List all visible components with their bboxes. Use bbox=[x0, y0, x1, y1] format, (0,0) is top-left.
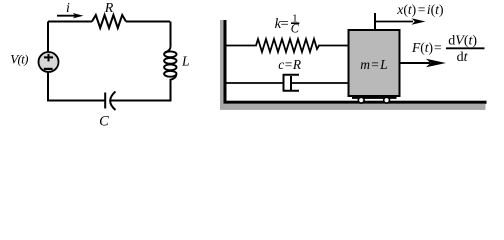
svg-text:L: L bbox=[181, 54, 190, 69]
wheel right bbox=[384, 97, 390, 103]
svg-text:dV(t): dV(t) bbox=[448, 33, 477, 48]
label i bbox=[66, 1, 70, 16]
svg-text:k=: k= bbox=[275, 16, 289, 32]
svg-text:c=R: c=R bbox=[278, 57, 301, 72]
wire left lower bbox=[48, 72, 105, 101]
damper c=R bbox=[227, 74, 349, 92]
current arrow i bbox=[57, 13, 84, 18]
wire left bbox=[47, 22, 49, 53]
label x(t)=i(t) bbox=[396, 2, 443, 18]
displacement arrow x(t)=i(t) bbox=[375, 13, 426, 30]
label C bbox=[99, 113, 109, 129]
inductor L bbox=[164, 22, 176, 80]
force arrow F(t) bbox=[400, 59, 447, 67]
voltage source V(t) bbox=[39, 52, 59, 72]
svg-text:R: R bbox=[104, 1, 114, 16]
svg-text:V(t): V(t) bbox=[10, 52, 28, 67]
wheel left bbox=[358, 97, 364, 103]
wire top (left circuit) bbox=[48, 21, 170, 23]
svg-text:C: C bbox=[291, 22, 300, 36]
svg-text:F(t)=: F(t)= bbox=[411, 40, 442, 55]
capacitor C bbox=[105, 92, 115, 111]
svg-text:x(t)=i(t): x(t)=i(t) bbox=[396, 2, 443, 18]
label c=R bbox=[278, 57, 301, 72]
mass m=L bbox=[349, 30, 400, 99]
label L bbox=[181, 54, 190, 69]
svg-text:C: C bbox=[99, 113, 109, 129]
wall bbox=[220, 20, 227, 110]
label F(t)=dV(t)/dt bbox=[411, 33, 485, 65]
svg-text:m=L: m=L bbox=[360, 57, 387, 72]
label V(t) bbox=[10, 52, 28, 67]
ground bbox=[220, 101, 487, 110]
label R bbox=[104, 1, 114, 16]
spring k=1/C bbox=[227, 39, 349, 52]
svg-text:i: i bbox=[66, 1, 70, 16]
wire bottom right bbox=[111, 79, 171, 101]
resistor R bbox=[92, 15, 126, 28]
svg-text:dt: dt bbox=[457, 50, 469, 65]
label k=1/C bbox=[275, 12, 300, 35]
